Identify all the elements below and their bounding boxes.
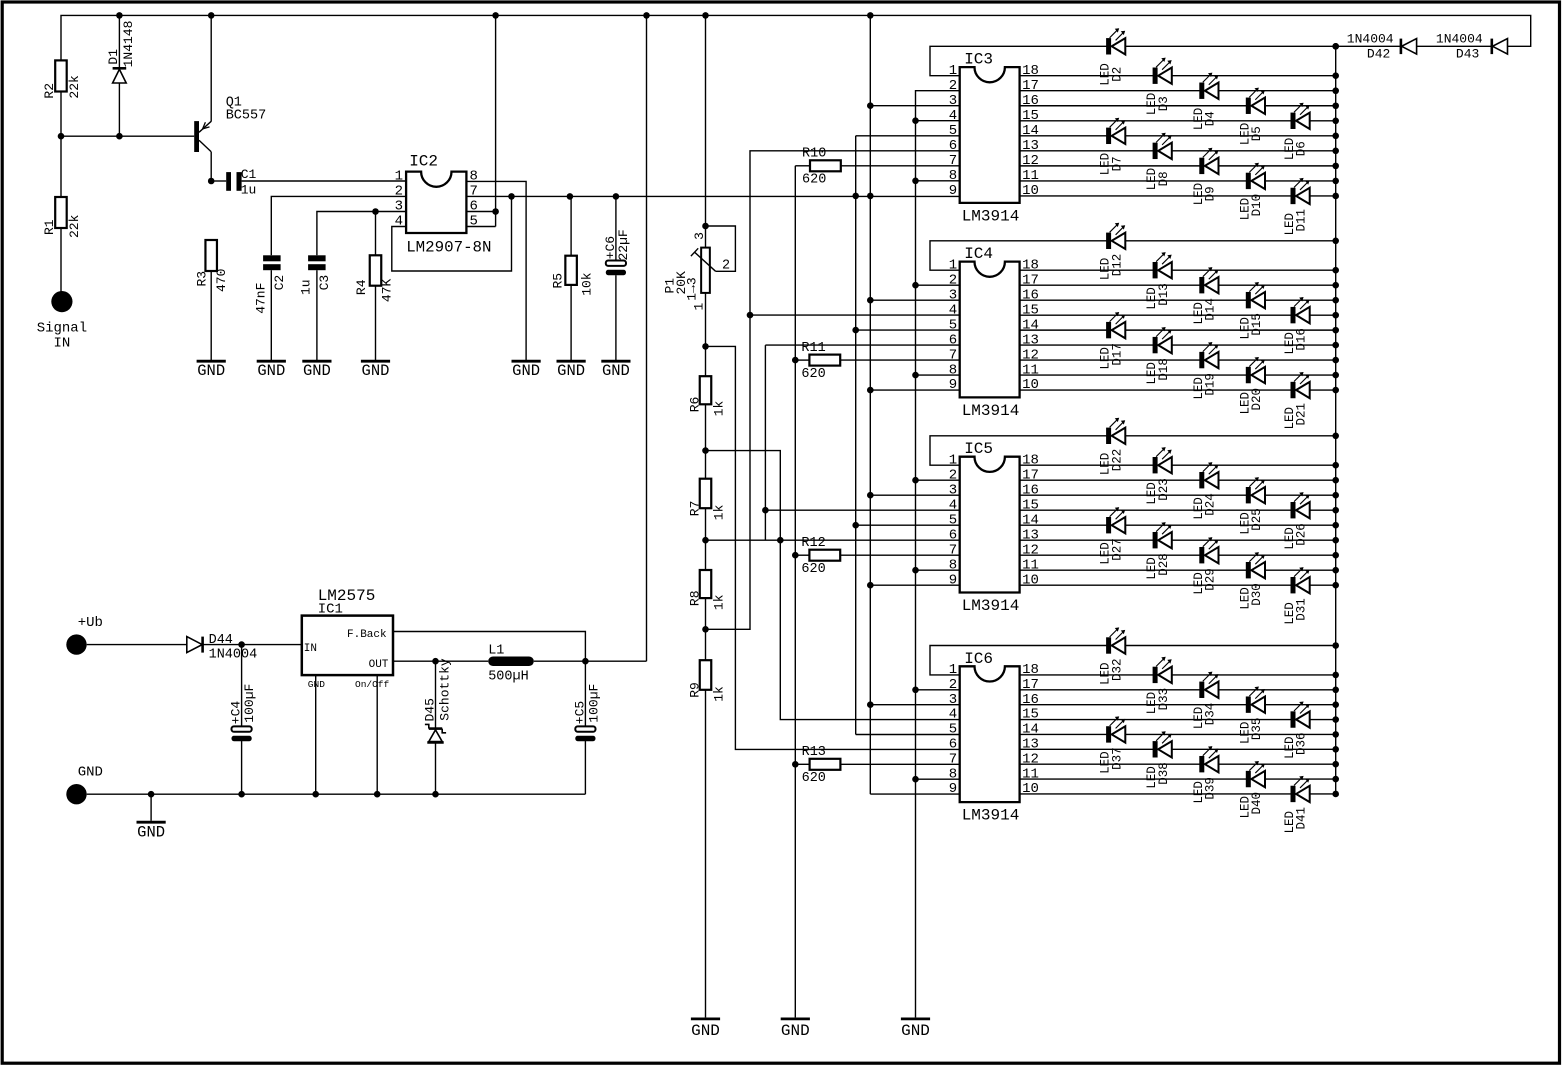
svg-text:GND: GND bbox=[197, 362, 225, 380]
node IC5 pin6 branch bbox=[777, 537, 784, 544]
node anode bus junction bbox=[1332, 507, 1339, 514]
svg-text:3: 3 bbox=[949, 692, 957, 708]
wire signal bus to pin5 of all ICs bbox=[855, 136, 857, 735]
wire IC2 pin8 to ground bbox=[466, 181, 526, 359]
svg-text:1k: 1k bbox=[711, 686, 726, 702]
wire IC3 pin1 route to LED row bbox=[930, 46, 1336, 75]
node anode bus junction bbox=[1332, 686, 1339, 693]
wire IC4 pin11 row bbox=[1020, 374, 1336, 376]
svg-text:GND: GND bbox=[308, 679, 325, 690]
diode D45 (Schottky) bbox=[423, 658, 453, 742]
LED D31 bbox=[1283, 567, 1310, 625]
IC IC3 (LM3914) bbox=[960, 51, 1020, 226]
svg-text:2: 2 bbox=[949, 467, 957, 483]
svg-text:D43: D43 bbox=[1456, 47, 1479, 62]
LED D37 bbox=[1099, 716, 1126, 774]
LED D38 bbox=[1145, 731, 1172, 789]
svg-text:10: 10 bbox=[1022, 781, 1039, 797]
svg-text:D5: D5 bbox=[1250, 126, 1264, 141]
wire IC6 pin17 row bbox=[1020, 689, 1336, 691]
svg-text:14: 14 bbox=[1022, 722, 1039, 738]
svg-text:GND: GND bbox=[781, 1022, 810, 1040]
node base junction bbox=[58, 133, 65, 140]
svg-text:GND: GND bbox=[557, 362, 585, 380]
svg-text:C3: C3 bbox=[317, 275, 332, 291]
wire D42 anode to D43 bbox=[1417, 45, 1492, 47]
resistor R9 (1k) bbox=[700, 660, 712, 690]
resistor R13 (620) bbox=[810, 759, 841, 770]
svg-text:2: 2 bbox=[395, 184, 403, 200]
node rail-Vplus-bus bbox=[867, 12, 874, 19]
node IC5 pin5 bbox=[852, 522, 859, 529]
wire OUT row bbox=[393, 660, 488, 662]
node C6 top bbox=[613, 193, 620, 200]
resistor R8 (1k) bbox=[700, 570, 712, 598]
wire IC5 pin1 route to LED row bbox=[930, 436, 1336, 465]
wire IC5 pin12 row bbox=[1020, 554, 1336, 556]
op-amp IC2 (LM2907-8N) bbox=[406, 153, 491, 257]
LED D40 bbox=[1238, 761, 1265, 819]
node IC6 pin2 bbox=[912, 687, 919, 694]
svg-text:D31: D31 bbox=[1295, 598, 1309, 621]
LED D2 bbox=[1099, 28, 1126, 86]
wire C5 to ground rail bbox=[584, 741, 586, 794]
svg-text:R10: R10 bbox=[802, 147, 826, 162]
svg-text:16: 16 bbox=[1022, 287, 1039, 303]
svg-text:16: 16 bbox=[1022, 93, 1039, 109]
resistor R5 (10k) bbox=[565, 256, 577, 285]
svg-text:D11: D11 bbox=[1295, 209, 1309, 232]
wire IC5 pin13 row bbox=[1020, 539, 1336, 541]
svg-text:LM2907-8N: LM2907-8N bbox=[406, 239, 491, 257]
node tap P1/R6 bbox=[702, 343, 709, 350]
node anode bus junction bbox=[1332, 746, 1339, 753]
wire C6 top bbox=[615, 196, 617, 260]
regulator IC1 (LM2575) bbox=[302, 587, 393, 690]
svg-text:C1: C1 bbox=[241, 167, 257, 182]
wire base to Q1 bbox=[61, 135, 194, 137]
svg-text:1k: 1k bbox=[711, 594, 726, 610]
node anode bus junction bbox=[1332, 776, 1339, 783]
LED D39 bbox=[1192, 746, 1219, 804]
wire IC6 pin15 row bbox=[1020, 719, 1336, 721]
svg-text:D17: D17 bbox=[1110, 343, 1124, 366]
svg-text:Signal: Signal bbox=[37, 321, 87, 337]
svg-text:9: 9 bbox=[949, 377, 957, 393]
svg-text:D29: D29 bbox=[1204, 568, 1218, 591]
resistor R12 (620) bbox=[809, 550, 840, 561]
node tap R8/R9 bbox=[702, 626, 709, 633]
svg-text:11: 11 bbox=[1022, 362, 1039, 378]
svg-text:7: 7 bbox=[949, 542, 957, 558]
wire IC5 pin15 row bbox=[1020, 509, 1336, 511]
node anode bus junction bbox=[1332, 492, 1339, 499]
svg-text:GND: GND bbox=[257, 362, 285, 380]
svg-text:1N4004: 1N4004 bbox=[209, 648, 258, 663]
wire IC1 On/Off pin bbox=[376, 675, 378, 794]
wire IC3 pin12 row bbox=[1020, 165, 1336, 167]
svg-text:4: 4 bbox=[949, 497, 957, 513]
wire to IC4 pin2 bbox=[916, 284, 960, 286]
node IC5 pin4 branch bbox=[762, 507, 769, 514]
wire IC4 pin14 row bbox=[1020, 329, 1336, 331]
svg-text:14: 14 bbox=[1022, 317, 1039, 333]
svg-text:D21: D21 bbox=[1295, 403, 1309, 426]
node anode bus junction bbox=[1332, 387, 1339, 394]
svg-text:100µF: 100µF bbox=[586, 684, 601, 723]
wire F.Back loop bbox=[393, 632, 585, 662]
wire IC6 pin18 row bbox=[1020, 674, 1336, 676]
svg-text:9: 9 bbox=[949, 781, 957, 797]
LED D10 bbox=[1238, 163, 1265, 221]
wire IC3 pin14 row bbox=[1020, 135, 1336, 137]
svg-text:1: 1 bbox=[949, 452, 957, 468]
svg-text:R12: R12 bbox=[801, 536, 825, 551]
svg-text:Schottky: Schottky bbox=[438, 658, 453, 721]
node anode bus junction bbox=[1332, 477, 1339, 484]
wire R11 to IC4 pin7 bbox=[840, 359, 960, 361]
svg-text:620: 620 bbox=[802, 173, 826, 188]
svg-text:8: 8 bbox=[949, 362, 957, 378]
wire tap P1/R6 to IC6 pin6 bbox=[706, 346, 962, 749]
svg-text:18: 18 bbox=[1022, 452, 1039, 468]
wire to IC5 pin2 bbox=[916, 479, 960, 481]
wire IC5 pin16 row bbox=[1020, 494, 1336, 496]
svg-text:15: 15 bbox=[1022, 497, 1039, 513]
node IC6 pin8 bbox=[912, 776, 919, 783]
svg-text:D44: D44 bbox=[209, 633, 233, 648]
svg-text:9: 9 bbox=[949, 572, 957, 588]
svg-text:C2: C2 bbox=[272, 275, 287, 291]
node tap R6/R7 bbox=[702, 447, 709, 454]
wire IC5 pin18 row bbox=[1020, 464, 1336, 466]
LED D16 bbox=[1283, 297, 1310, 355]
svg-text:LM3914: LM3914 bbox=[962, 597, 1020, 615]
node anode bus junction bbox=[1332, 87, 1339, 94]
wire IC5 pin11 row bbox=[1020, 569, 1336, 571]
svg-text:12: 12 bbox=[1022, 153, 1039, 169]
wire R5 to ground bbox=[570, 285, 572, 360]
node IC5 pin2 bbox=[912, 477, 919, 484]
LED D4 bbox=[1192, 73, 1219, 131]
LED D26 bbox=[1283, 492, 1310, 550]
wire to IC3 pin4 bbox=[916, 120, 960, 122]
wire IC3 pin16 row bbox=[1020, 105, 1336, 107]
svg-text:D30: D30 bbox=[1250, 583, 1264, 606]
wire IC4 pin17 row bbox=[1020, 284, 1336, 286]
svg-text:1: 1 bbox=[949, 63, 957, 79]
LED D22 bbox=[1099, 418, 1126, 476]
svg-text:IC1: IC1 bbox=[318, 601, 343, 617]
node anode bus junction bbox=[1332, 462, 1339, 469]
wire C3 to ground bbox=[316, 270, 318, 359]
svg-text:2: 2 bbox=[722, 259, 730, 274]
svg-text:16: 16 bbox=[1022, 482, 1039, 498]
wire to IC6 pin5 bbox=[856, 734, 961, 736]
svg-text:GND: GND bbox=[901, 1022, 930, 1040]
svg-text:IC4: IC4 bbox=[964, 245, 993, 263]
wire C5 down bbox=[584, 661, 586, 726]
node anode bus junction bbox=[1332, 43, 1339, 50]
svg-text:D2: D2 bbox=[1110, 67, 1124, 82]
node R13 left bbox=[792, 761, 799, 768]
node anode bus junction bbox=[1332, 552, 1339, 559]
LED D6 bbox=[1283, 103, 1310, 161]
svg-text:15: 15 bbox=[1022, 302, 1039, 318]
wire ground bus bbox=[916, 91, 960, 1018]
node pin5/pin6 bbox=[492, 208, 499, 215]
svg-text:6: 6 bbox=[949, 138, 957, 154]
node IC4 pin9 bbox=[867, 387, 874, 394]
node C4 top bbox=[238, 641, 245, 648]
svg-text:R2: R2 bbox=[42, 83, 57, 99]
LED D11 bbox=[1283, 178, 1310, 236]
wire IC3 pin17 row bbox=[1020, 90, 1336, 92]
LED D3 bbox=[1145, 58, 1172, 116]
node IC1 gnd bbox=[312, 791, 319, 798]
svg-text:LM3914: LM3914 bbox=[962, 402, 1020, 420]
wire IC3 pin13 row bbox=[1020, 150, 1336, 152]
LED D41 bbox=[1283, 776, 1310, 834]
node gnd sym bbox=[148, 791, 155, 798]
svg-text:13: 13 bbox=[1022, 527, 1039, 543]
LED D32 bbox=[1099, 627, 1126, 685]
svg-text:620: 620 bbox=[802, 771, 826, 786]
svg-text:D38: D38 bbox=[1157, 762, 1171, 785]
svg-text:3: 3 bbox=[692, 232, 707, 240]
svg-text:470: 470 bbox=[214, 269, 229, 292]
svg-text:5: 5 bbox=[949, 123, 957, 139]
wire IC2 pin2 to C2 bbox=[271, 196, 406, 255]
svg-text:500µH: 500µH bbox=[488, 670, 529, 685]
wire R12 left bbox=[795, 554, 809, 556]
diode D42 (1N4004) bbox=[1347, 31, 1417, 61]
svg-text:D42: D42 bbox=[1367, 47, 1390, 62]
svg-text:D39: D39 bbox=[1204, 777, 1218, 800]
wire +8V to P1 bbox=[705, 15, 707, 247]
wire IC6 pin1 route to LED row bbox=[930, 646, 1336, 675]
svg-text:D12: D12 bbox=[1110, 254, 1124, 277]
svg-text:R13: R13 bbox=[802, 745, 826, 760]
svg-text:22µF: 22µF bbox=[616, 229, 631, 260]
node C4 gnd bbox=[238, 791, 245, 798]
wire to IC3 pin8 bbox=[916, 180, 960, 182]
svg-text:47nF: 47nF bbox=[253, 283, 268, 314]
node Q1 collector / C1 / R3 bbox=[208, 178, 215, 185]
LED D24 bbox=[1192, 462, 1219, 520]
LED D23 bbox=[1145, 447, 1172, 505]
svg-text:GND: GND bbox=[512, 362, 540, 380]
node IC6 pin3 bbox=[867, 701, 874, 708]
capacitor C4 (100uF electrolytic) bbox=[229, 684, 258, 742]
LED D30 bbox=[1238, 552, 1265, 610]
node D45 top bbox=[432, 658, 439, 665]
svg-text:1: 1 bbox=[949, 662, 957, 678]
wire tap R7/R8 to IC5 pin6 bbox=[706, 539, 960, 541]
node On/Off gnd bbox=[374, 791, 381, 798]
svg-text:4: 4 bbox=[949, 108, 957, 124]
LED D36 bbox=[1283, 701, 1310, 759]
svg-text:D34: D34 bbox=[1204, 703, 1218, 726]
svg-text:D41: D41 bbox=[1295, 807, 1309, 830]
node anode bus junction bbox=[1332, 642, 1339, 649]
svg-text:D45: D45 bbox=[423, 698, 438, 721]
wire IC2 pin6 to +8V bbox=[466, 211, 495, 213]
wire to IC6 pin8 bbox=[916, 778, 962, 780]
node IC4 pin3 bbox=[867, 297, 874, 304]
svg-text:13: 13 bbox=[1022, 138, 1039, 154]
svg-text:IC3: IC3 bbox=[964, 51, 993, 69]
wire +8V drop to pin5/pin6 bbox=[495, 15, 497, 226]
svg-text:8: 8 bbox=[949, 557, 957, 573]
wire IC4 pin13 row bbox=[1020, 344, 1336, 346]
svg-text:1: 1 bbox=[395, 169, 403, 185]
svg-text:4: 4 bbox=[949, 302, 957, 318]
wire D42 to anode bus bbox=[1336, 45, 1401, 47]
node anode bus junction bbox=[1332, 433, 1339, 440]
wire IC4 pin12 row bbox=[1020, 359, 1336, 361]
svg-text:D32: D32 bbox=[1110, 658, 1124, 681]
wire D45 to ground rail bbox=[435, 742, 437, 794]
ground bbox=[512, 360, 541, 381]
node anode bus junction bbox=[1332, 342, 1339, 349]
ground bbox=[781, 1017, 810, 1040]
svg-text:R7: R7 bbox=[687, 501, 702, 517]
wire P1 to R6 bbox=[705, 293, 707, 376]
wire R8 to R9 bbox=[705, 598, 707, 660]
wire IC6 pin12 row bbox=[1020, 763, 1336, 765]
svg-text:11: 11 bbox=[1022, 168, 1039, 184]
node rail-D1 bbox=[116, 12, 123, 19]
wire to IC4 pin5 bbox=[856, 329, 960, 331]
svg-text:R8: R8 bbox=[687, 590, 702, 606]
svg-text:16: 16 bbox=[1022, 692, 1039, 708]
wire IC3 pin11 row bbox=[1020, 180, 1336, 182]
svg-text:15: 15 bbox=[1022, 108, 1039, 124]
svg-text:18: 18 bbox=[1022, 63, 1039, 79]
svg-text:D20: D20 bbox=[1250, 388, 1264, 411]
svg-text:1k: 1k bbox=[711, 504, 726, 520]
svg-text:15: 15 bbox=[1022, 707, 1039, 723]
LED D19 bbox=[1192, 342, 1219, 400]
ground bbox=[557, 360, 586, 381]
svg-text:IN: IN bbox=[53, 336, 70, 352]
node R11 left bbox=[792, 357, 799, 364]
svg-text:7: 7 bbox=[470, 184, 478, 200]
svg-text:1N4004: 1N4004 bbox=[1436, 31, 1483, 46]
node anode bus junction bbox=[1332, 731, 1339, 738]
node anode bus junction bbox=[1332, 163, 1339, 170]
wire to IC4 pin9 bbox=[870, 389, 959, 391]
wire IC4 pin16 row bbox=[1020, 299, 1336, 301]
svg-text:5: 5 bbox=[949, 722, 957, 738]
svg-text:GND: GND bbox=[362, 362, 390, 380]
wire IC1 GND pin bbox=[315, 675, 317, 794]
svg-text:8: 8 bbox=[949, 168, 957, 184]
node D45 gnd bbox=[432, 791, 439, 798]
terminal GND bbox=[66, 765, 103, 805]
svg-text:D15: D15 bbox=[1250, 313, 1264, 336]
node anode bus top bbox=[1332, 43, 1339, 50]
node P1 top bbox=[702, 223, 709, 230]
node rail-LM2575out bbox=[643, 12, 650, 19]
svg-text:11: 11 bbox=[1022, 557, 1039, 573]
svg-text:1→3: 1→3 bbox=[685, 277, 700, 300]
ground bbox=[137, 794, 166, 841]
svg-text:D26: D26 bbox=[1295, 523, 1309, 546]
ground bbox=[361, 360, 390, 381]
svg-text:10: 10 bbox=[1022, 572, 1039, 588]
wire R3 to ground bbox=[210, 271, 212, 360]
svg-text:D27: D27 bbox=[1110, 538, 1124, 561]
wire +Ub to D44 bbox=[87, 644, 187, 646]
svg-text:6: 6 bbox=[949, 332, 957, 348]
wire R13 to IC6 pin7 bbox=[840, 763, 961, 765]
svg-text:GND: GND bbox=[602, 362, 630, 380]
node anode bus junction bbox=[1332, 582, 1339, 589]
svg-text:D28: D28 bbox=[1157, 553, 1171, 576]
wire C2 to ground bbox=[270, 270, 272, 359]
wire R7 to R8 bbox=[705, 508, 707, 570]
LED D29 bbox=[1192, 537, 1219, 595]
IC IC5 (LM3914) bbox=[960, 440, 1020, 615]
wire to IC5 pin4 bbox=[765, 509, 959, 511]
svg-text:1: 1 bbox=[949, 257, 957, 273]
wire R9 to ground bbox=[705, 690, 707, 1017]
wire IC2 pin3 to C3 bbox=[317, 212, 406, 256]
svg-text:LM3914: LM3914 bbox=[962, 207, 1020, 225]
node anode bus junction bbox=[1332, 761, 1339, 768]
svg-text:LM3914: LM3914 bbox=[962, 807, 1020, 825]
wire IC6 pin16 row bbox=[1020, 704, 1336, 706]
node anode bus junction bbox=[1332, 701, 1339, 708]
node anode bus junction bbox=[1332, 72, 1339, 79]
LED D20 bbox=[1238, 357, 1265, 415]
node anode bus junction bbox=[1332, 791, 1339, 798]
wire to IC5 pin5 bbox=[856, 524, 960, 526]
svg-text:D6: D6 bbox=[1295, 141, 1309, 156]
wire R4 to ground bbox=[375, 286, 377, 360]
wire IC6 pin14 row bbox=[1020, 733, 1336, 735]
LED D7 bbox=[1099, 118, 1126, 176]
svg-text:8: 8 bbox=[949, 766, 957, 782]
node anode bus junction bbox=[1332, 238, 1339, 245]
wire D44 to IC1 IN bbox=[203, 644, 302, 646]
wire C6 to ground bbox=[615, 275, 617, 359]
wire R12 to IC5 pin7 bbox=[840, 554, 960, 556]
svg-text:2: 2 bbox=[949, 272, 957, 288]
node tap R7/R8 bbox=[702, 537, 709, 544]
svg-text:14: 14 bbox=[1022, 512, 1039, 528]
svg-text:R9: R9 bbox=[687, 682, 702, 698]
wire +8V feed from LM2575 to rail bbox=[646, 15, 648, 661]
svg-text:1u: 1u bbox=[298, 279, 313, 295]
node anode bus junction bbox=[1332, 297, 1339, 304]
node IC5 pin8 bbox=[912, 567, 919, 574]
wire D45 down bbox=[435, 661, 437, 727]
svg-text:10: 10 bbox=[1022, 377, 1039, 393]
capacitor C2 (47nF) bbox=[253, 255, 287, 313]
node anode bus junction bbox=[1332, 327, 1339, 334]
svg-text:14: 14 bbox=[1022, 123, 1039, 139]
node pin3/R4 bbox=[372, 208, 379, 215]
svg-text:D33: D33 bbox=[1157, 688, 1171, 711]
wire R11 left bbox=[795, 359, 809, 361]
svg-text:D36: D36 bbox=[1295, 733, 1309, 756]
LED D35 bbox=[1238, 687, 1265, 745]
wire +8V top rail bbox=[61, 15, 1531, 60]
node anode bus junction bbox=[1332, 522, 1339, 529]
